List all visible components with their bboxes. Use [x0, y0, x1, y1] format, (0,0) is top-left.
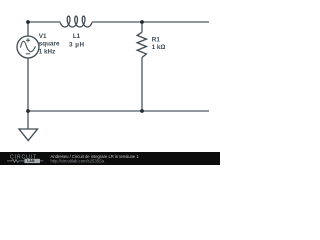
svg-text:V1: V1	[39, 33, 47, 40]
svg-text:http://circuitlab.com/c2535Sa: http://circuitlab.com/c2535Sa	[51, 159, 105, 164]
svg-text:1 kΩ: 1 kΩ	[152, 44, 166, 51]
svg-text:3 µH: 3 µH	[69, 41, 84, 48]
svg-text:L1: L1	[73, 33, 81, 40]
svg-text:square: square	[39, 41, 60, 48]
svg-text:1 kHz: 1 kHz	[39, 48, 55, 55]
svg-text:R1: R1	[152, 37, 161, 44]
svg-text:LAB: LAB	[27, 159, 35, 163]
